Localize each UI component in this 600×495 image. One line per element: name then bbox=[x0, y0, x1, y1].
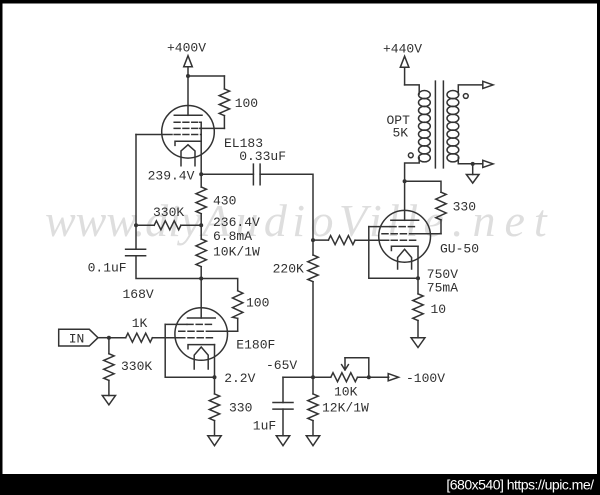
transformer T1 secondary winding bbox=[447, 91, 459, 162]
wire pot wiper loop bbox=[345, 358, 369, 378]
wire U2 g2 exit bbox=[213, 330, 238, 332]
wire U2 g3 tie to left loop bbox=[165, 323, 187, 325]
node junction dot bias left bbox=[311, 375, 315, 379]
svg-text:www.diyAudioVille.net: www.diyAudioVille.net bbox=[45, 195, 556, 246]
resistor 330K (input) bbox=[104, 354, 114, 381]
wire resistor 220K top stem bbox=[312, 240, 314, 255]
wire 330 bottom stem bbox=[214, 421, 216, 436]
wire U2 cathode bend down bbox=[214, 345, 216, 378]
capacitor C 0.33uF bbox=[253, 164, 260, 185]
tube U3 GU-50 envelope bbox=[379, 210, 431, 262]
svg-text:330K: 330K bbox=[153, 205, 184, 220]
wire U3 g3 tie to left loop bbox=[369, 226, 390, 228]
node junction dot feedback/330K bbox=[134, 223, 138, 227]
wire 1uF bottom stem bbox=[282, 409, 284, 436]
tube U2 cathode bbox=[188, 345, 215, 349]
wire 239.4V node to capacitor bbox=[201, 173, 253, 175]
node junction dot 168V bbox=[199, 277, 203, 281]
resistor 330K (feedback) bbox=[154, 221, 181, 230]
wire 168V node to E180F screen resistor bbox=[201, 279, 238, 291]
wire resistor 10 bottom stem bbox=[417, 321, 419, 338]
resistor 10K/1W (EL183 cathode load) bbox=[196, 239, 206, 267]
wire 220K down to bias node bbox=[312, 282, 314, 378]
svg-text:-100V: -100V bbox=[406, 371, 445, 386]
svg-text:0.1uF: 0.1uF bbox=[88, 261, 127, 276]
resistor 100 (E180F screen) bbox=[233, 291, 243, 319]
node junction dot pot right bbox=[367, 375, 371, 379]
svg-text:+400V: +400V bbox=[167, 40, 206, 55]
tube U3 grid g3 bbox=[390, 226, 416, 228]
wire +440V to primary bbox=[405, 85, 420, 94]
svg-text:75mA: 75mA bbox=[427, 281, 458, 296]
wire capacitor to 1K node bbox=[260, 174, 313, 240]
resistor 330 (E180F cathode) bbox=[209, 394, 219, 421]
wire resistor 100 top stem bbox=[223, 76, 225, 89]
wire U3 g2 exit bbox=[416, 233, 441, 235]
wire IN to node bbox=[98, 337, 109, 339]
svg-text:GU-50: GU-50 bbox=[440, 242, 479, 257]
wire U3 cathode bend down bbox=[417, 246, 419, 278]
potentiometer 10K bbox=[331, 373, 358, 382]
svg-text:100: 100 bbox=[235, 96, 258, 111]
svg-text:0.33uF: 0.33uF bbox=[239, 149, 286, 164]
wire primary bottom bbox=[405, 158, 420, 182]
pot wiper arrow bbox=[342, 358, 349, 370]
tube U2 grid g1 bbox=[179, 337, 213, 339]
svg-text:[680x540] https://upic.me/: [680x540] https://upic.me/ bbox=[446, 476, 594, 492]
tube U2 plate bbox=[188, 317, 216, 319]
border frame left bbox=[0, 0, 3, 495]
wire EL183 plate lead bbox=[187, 76, 189, 115]
capacitor C 0.1uF bbox=[126, 249, 146, 256]
wire feedback column bbox=[135, 135, 137, 250]
wire U1 grid g1 to feedback node bbox=[136, 134, 172, 136]
svg-text:236.4V: 236.4V bbox=[213, 215, 260, 230]
svg-text:E180F: E180F bbox=[236, 338, 275, 353]
tube U1 heater bbox=[181, 145, 195, 166]
ground (GU-50 cathode) bbox=[411, 338, 425, 348]
wire 330 bottom stem bbox=[440, 220, 442, 234]
tube U3 plate bbox=[391, 219, 419, 221]
transformer T1 core bbox=[435, 81, 443, 168]
wire secondary bottom bbox=[458, 158, 483, 164]
tube U3 cathode bbox=[391, 246, 418, 250]
wire resistor 430 bottom stem bbox=[200, 214, 202, 226]
svg-text:2.2V: 2.2V bbox=[224, 371, 255, 386]
node junction dot IN bbox=[107, 336, 111, 340]
svg-text:IN: IN bbox=[69, 331, 85, 346]
node junction dot 239.4V bbox=[199, 172, 203, 176]
wire E180F screen resistor bottom stem bbox=[237, 318, 239, 331]
resistor 1K (GU-50 grid stopper) bbox=[328, 236, 355, 245]
port arrow -100V bbox=[388, 374, 398, 381]
node junction dot 1K/220K bbox=[311, 238, 315, 242]
ground (input) bbox=[102, 396, 115, 405]
wire 12K/1W bottom stem bbox=[312, 421, 314, 436]
wire secondary ground stem bbox=[472, 164, 474, 175]
capacitor C 1uF bbox=[273, 403, 293, 410]
wire 1K to U2 grid bbox=[152, 337, 178, 339]
wire -65V rail bbox=[283, 376, 313, 378]
wire GU-50 screen rail bbox=[405, 181, 441, 192]
svg-text:10K: 10K bbox=[334, 385, 358, 400]
tube U1 cathode bbox=[175, 141, 201, 145]
wire 330 cathode resistor top stem bbox=[214, 377, 216, 394]
svg-text:330: 330 bbox=[453, 200, 476, 215]
tube U2 E180F envelope bbox=[175, 308, 228, 361]
svg-text:5K: 5K bbox=[393, 125, 409, 140]
wire U1 g3-cathode tie bbox=[200, 122, 201, 141]
wire resistor 430 top stem bbox=[200, 174, 202, 187]
wire U1 g2 exit bbox=[200, 127, 225, 129]
resistor 10 (GU-50 cathode) bbox=[413, 294, 423, 321]
port arrow secondary bottom bbox=[483, 160, 493, 167]
wire 330K input top stem bbox=[108, 338, 110, 354]
tube U1 grid g3 bbox=[174, 121, 201, 123]
svg-text:1uF: 1uF bbox=[253, 419, 276, 434]
wire resistor 10 top stem bbox=[417, 278, 419, 294]
wire pot to -100V arrow bbox=[358, 376, 389, 378]
wire +400V rail to resistor 100 bbox=[188, 75, 224, 77]
node junction dot 750V bbox=[416, 276, 420, 280]
svg-text:100: 100 bbox=[246, 296, 269, 311]
ground (12K/1W) bbox=[306, 436, 319, 446]
ground (E180F cathode) bbox=[208, 436, 221, 446]
tube U2 grid g2 bbox=[179, 330, 213, 332]
wire U2 plate lead bbox=[200, 279, 202, 319]
node junction dot +400V bbox=[186, 74, 190, 78]
wire 330K left stem bbox=[136, 224, 154, 226]
wire 330K input bottom stem bbox=[108, 380, 110, 395]
wire U3 plate lead bbox=[404, 181, 406, 220]
svg-text:12K/1W: 12K/1W bbox=[322, 401, 369, 416]
wire U1 cathode lead bbox=[200, 141, 202, 174]
svg-text:330K: 330K bbox=[121, 359, 152, 374]
svg-text:239.4V: 239.4V bbox=[148, 169, 195, 184]
tube U1 plate bbox=[174, 114, 202, 116]
tube U1 grid g2 bbox=[174, 127, 201, 129]
svg-text:220K: 220K bbox=[273, 262, 304, 277]
secondary phase dot bbox=[463, 94, 468, 99]
svg-text:10K/1W: 10K/1W bbox=[213, 245, 260, 260]
svg-text:10: 10 bbox=[431, 302, 447, 317]
tube U2 grid g3 bbox=[187, 323, 213, 325]
wire 0.1uF bottom to 168V node bbox=[136, 256, 201, 279]
resistor 12K/1W bbox=[308, 394, 318, 421]
wire resistor 10K/1W bottom stem bbox=[200, 267, 202, 279]
transformer T1 primary winding bbox=[419, 91, 431, 162]
wire 330K right stem bbox=[181, 224, 201, 226]
resistor 330 (GU-50 screen) bbox=[436, 192, 446, 220]
tube U3 grid g2 bbox=[382, 233, 416, 235]
resistor 100 (EL183 screen) bbox=[219, 89, 229, 116]
svg-text:1K: 1K bbox=[132, 316, 148, 331]
tube U1 EL183 envelope bbox=[162, 106, 215, 159]
port arrow secondary top bbox=[483, 81, 493, 88]
node +400V power arrow bbox=[184, 56, 193, 76]
tube U3 heater bbox=[398, 249, 412, 269]
resistor 1K (input grid stopper) bbox=[126, 333, 153, 342]
svg-text:330: 330 bbox=[229, 401, 252, 416]
resistor 220K bbox=[308, 255, 318, 282]
wire resistor 12K/1W top stem bbox=[312, 377, 314, 394]
wire node to 1K GU-50 bbox=[313, 239, 328, 241]
resistor 430 bbox=[196, 187, 206, 214]
tube U3 grid g1 bbox=[382, 239, 416, 241]
wire secondary top bbox=[458, 85, 483, 94]
node +440V power arrow bbox=[400, 56, 409, 85]
wire resistor 10K/1W top stem bbox=[200, 225, 202, 239]
ground (1uF) bbox=[276, 436, 289, 446]
svg-text:430: 430 bbox=[213, 194, 236, 209]
border frame top bbox=[0, 0, 600, 4]
node junction dot 236.4V bbox=[199, 223, 203, 227]
border frame right bbox=[597, 0, 600, 495]
svg-text:-65V: -65V bbox=[266, 358, 297, 373]
ground (secondary) bbox=[466, 175, 479, 184]
wire IN node to 1K bbox=[109, 337, 126, 339]
border frame bottom bbox=[0, 474, 600, 495]
wire 1uF top bbox=[282, 377, 284, 402]
primary phase dot bbox=[408, 153, 413, 158]
wire U3 g3 left loop bbox=[369, 227, 418, 279]
svg-text:+440V: +440V bbox=[383, 42, 422, 57]
svg-text:6.8mA: 6.8mA bbox=[213, 229, 252, 244]
wire resistor 100 bottom stem bbox=[223, 116, 225, 129]
wire bias node to pot bbox=[313, 376, 331, 378]
port IN flag bbox=[59, 329, 98, 346]
node junction dot GU-50 plate bbox=[403, 179, 407, 183]
wire 1K to U3 grid bbox=[355, 239, 389, 241]
wire U2 g3 left loop bbox=[165, 324, 214, 377]
svg-text:168V: 168V bbox=[123, 287, 154, 302]
node junction dot secondary bbox=[471, 162, 475, 166]
tube U2 heater bbox=[194, 347, 208, 369]
node junction dot 2.2V bbox=[213, 375, 217, 379]
tube U1 grid g1 bbox=[174, 134, 201, 136]
